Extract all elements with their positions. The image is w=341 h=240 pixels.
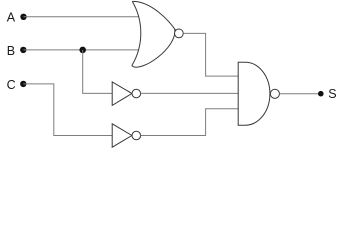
node A — [20, 14, 26, 20]
NOT gate U3 (inverter, from C) — [112, 124, 140, 147]
svg-text:C: C — [7, 78, 16, 92]
svg-text:S: S — [328, 87, 336, 101]
node C — [20, 81, 26, 87]
wire B to NOR input 2 — [23, 49, 139, 51]
wire NOT U2 output to NAND input 2 — [141, 92, 239, 94]
label A — [7, 11, 16, 25]
NOT gate U2 (inverter, from B branch) — [112, 82, 140, 106]
NAND gate U4 — [238, 62, 279, 125]
wire C to NOT gate U3 input — [23, 84, 112, 136]
label B — [7, 44, 15, 58]
wire NAND output to node S — [279, 93, 320, 95]
svg-text:B: B — [7, 44, 15, 58]
node B — [20, 47, 26, 53]
label C — [7, 78, 16, 92]
svg-text:A: A — [7, 11, 16, 25]
wire A to NOR input 1 — [24, 16, 139, 18]
label S — [328, 87, 336, 101]
wire junction down to NOT gate U2 input — [83, 50, 113, 94]
wire NOR output to NAND input 1 — [183, 33, 238, 76]
wire NOT U3 output to NAND input 3 — [141, 109, 239, 136]
junction on B line — [79, 47, 86, 54]
node S — [318, 91, 324, 97]
NOR gate U1 — [132, 1, 183, 67]
